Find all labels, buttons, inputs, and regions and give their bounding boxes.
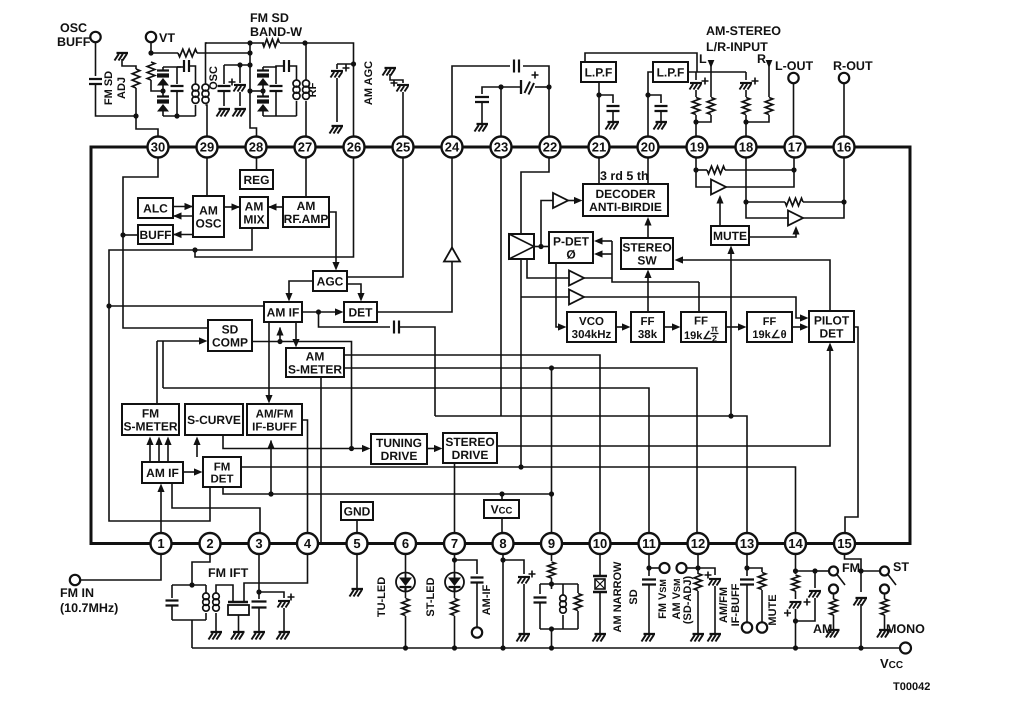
wire tank9 coil top [562, 584, 564, 595]
svg-text:8: 8 [499, 536, 506, 551]
terminal VT [146, 32, 156, 42]
capacitor rf varactor2 [257, 97, 269, 101]
svg-text:MONO: MONO [886, 622, 925, 636]
ground pin3b [279, 631, 291, 633]
wire pilot to sw [680, 260, 830, 311]
wire pin8 down [502, 554, 504, 648]
svg-text:304kHz: 304kHz [572, 329, 612, 341]
junction rail p9 [549, 645, 554, 650]
wire pin12 dn2 [697, 591, 699, 633]
arrow into ifbuff bottom [267, 440, 274, 449]
arrow into ifbuff [265, 395, 272, 404]
elco C7 [331, 65, 350, 78]
pin 25 [393, 137, 414, 158]
capacitor rf varactor1 [257, 71, 269, 75]
svg-text:AM: AM [306, 349, 325, 363]
wire p23 up [500, 87, 502, 137]
wire pin26 vert [353, 64, 355, 137]
ground pin3 [254, 631, 266, 633]
wire xbox out2 [520, 259, 522, 467]
arrow R input [766, 60, 773, 68]
svg-text:1: 1 [157, 536, 164, 551]
junction pdet in [538, 244, 543, 249]
pin 26 [344, 137, 365, 158]
wire y341 line [157, 340, 202, 342]
wire fmsm arrow 3 [167, 441, 169, 462]
arrow into ff1 [622, 323, 631, 330]
wire fb res19b [725, 169, 794, 171]
resistor R-pin13 [758, 573, 766, 590]
wire pin13 dn2 [746, 585, 748, 622]
svg-text:AM: AM [297, 199, 316, 213]
wire pin9 down [551, 554, 553, 561]
resistor R-pin9b [574, 594, 582, 611]
svg-text:AM-IF: AM-IF [481, 584, 493, 615]
svg-text:19: 19 [690, 140, 704, 155]
svg-text:29: 29 [200, 140, 214, 155]
svg-text:17: 17 [788, 140, 802, 155]
svg-text:TUNING: TUNING [376, 436, 422, 450]
wire pin3 down [258, 554, 260, 599]
svg-text:4: 4 [304, 536, 312, 551]
svg-text:RF.AMP: RF.AMP [284, 212, 329, 226]
svg-text:AGC: AGC [317, 274, 344, 288]
svg-text:13: 13 [740, 536, 754, 551]
terminal MUTE [757, 622, 767, 632]
block SD COMP [208, 320, 252, 351]
svg-text:AM: AM [813, 622, 832, 636]
ground pin10 [595, 633, 607, 635]
wire agc to amif [289, 281, 313, 297]
wire y388 line [163, 388, 649, 533]
svg-text:AM NARROW: AM NARROW [612, 561, 624, 632]
wire mute up [730, 251, 732, 417]
svg-text:BAND-W: BAND-W [250, 25, 302, 39]
svg-text:SW: SW [637, 253, 657, 267]
svg-text:AM IF: AM IF [267, 305, 300, 319]
ground pin12 [693, 633, 705, 635]
junction tank bottom [174, 113, 179, 118]
block REG [240, 170, 273, 189]
arrow into sw right [675, 256, 684, 263]
inductor IFT secondary [213, 593, 220, 611]
svg-text:OSC: OSC [60, 21, 87, 35]
wire rfamp to agc [329, 212, 336, 265]
wire a1 input [541, 201, 553, 247]
svg-text:BUFF: BUFF [57, 35, 91, 49]
arrow L input [708, 60, 715, 68]
wire pin3 capdn [258, 608, 260, 631]
svg-text:DET: DET [820, 326, 845, 340]
wire pin15 dn3 [860, 604, 862, 648]
svg-text:ALC: ALC [143, 201, 168, 215]
wire ift bottom rail [172, 619, 206, 621]
arrow into ff2 [672, 323, 681, 330]
wire det cap net2 [400, 327, 435, 416]
pin 12 [688, 533, 709, 554]
capacitor C-quad [514, 60, 519, 73]
wire amif left feed [109, 305, 264, 307]
elco C9 horizontal [521, 72, 539, 95]
svg-text:L: L [699, 52, 707, 66]
svg-text:24: 24 [445, 140, 460, 155]
switch FM contact B [829, 585, 838, 594]
svg-text:FF: FF [694, 316, 708, 328]
wire fmdet bottom b [223, 487, 552, 494]
elco C-p19 [690, 78, 709, 90]
wire elco col2 [239, 92, 241, 106]
wire lpf1 down [598, 82, 600, 137]
wire vco to ff1 [616, 326, 625, 328]
elco C8 [391, 80, 410, 92]
resistor R-p18 [742, 98, 750, 115]
block FM DET [203, 457, 241, 487]
svg-text:DECODER: DECODER [595, 187, 655, 201]
svg-text:27: 27 [298, 140, 312, 155]
wire smeter gnd [320, 377, 322, 542]
wire tank9 res top [577, 584, 579, 593]
wire sw st dn2 [884, 615, 886, 629]
wire lpf2 stub [648, 72, 653, 137]
wire ifbuff bottom [270, 441, 272, 495]
L.P.F block 2 [653, 62, 688, 82]
wire pin10 dn2 [599, 592, 601, 633]
junction pin9 y494 [549, 491, 554, 496]
svg-text:23: 23 [494, 140, 508, 155]
svg-text:S-METER: S-METER [288, 362, 342, 376]
capacitor C-amif [471, 578, 484, 583]
wire gnd to resistor [122, 59, 136, 69]
ground mid1 [219, 108, 231, 110]
ground amagc [385, 67, 397, 69]
wire pin15 dn2 [860, 576, 862, 592]
wire R in [768, 60, 770, 68]
arrow into fmsmeter 1 [146, 437, 153, 446]
wire lpf2 capdn [660, 111, 662, 121]
block VCO 304kHz [567, 312, 616, 342]
wire pin2 down [192, 554, 210, 585]
svg-text:VCC: VCC [491, 502, 513, 516]
wire series cap left [177, 66, 183, 68]
arrow into fmdet [194, 468, 203, 475]
elco C-p18 [740, 78, 759, 90]
svg-text:STEREO: STEREO [445, 435, 494, 449]
capacitor C-lpf1 [607, 106, 620, 111]
svg-text:DRIVE: DRIVE [381, 449, 418, 463]
IC package outline [91, 147, 910, 544]
wire amif to ifbuff [268, 322, 270, 399]
wire pin14 sw [815, 570, 829, 572]
wire xbox out1 [527, 259, 569, 278]
terminal OSC BUFF [90, 32, 100, 42]
resistor R-pin9 [548, 562, 556, 578]
pin 30 [148, 137, 169, 158]
junction pin12 [695, 565, 700, 570]
capacitor C-oscbuff [89, 79, 102, 84]
svg-text:IF-BUFF: IF-BUFF [730, 583, 742, 626]
svg-text:SD: SD [222, 322, 239, 336]
svg-text:21: 21 [592, 140, 606, 155]
wire pin20 to decoder [647, 158, 649, 185]
wire amagc down [402, 92, 404, 137]
pin 24 [442, 137, 463, 158]
wire lout down [793, 83, 795, 136]
terminal IF-BUFF [742, 622, 752, 632]
inductor IFT primary [203, 593, 210, 611]
svg-text:DET: DET [349, 305, 374, 319]
svg-text:19k∠θ: 19k∠θ [752, 329, 786, 341]
wire pin15 sw [861, 570, 880, 572]
wire amosc to buff [173, 234, 193, 236]
svg-text:π: π [711, 324, 718, 334]
wire pin28 to reg [256, 158, 258, 171]
wire pin14 branch [796, 571, 816, 588]
wire ift cap col2 [171, 606, 173, 620]
arrow into sw bottom [644, 270, 651, 279]
svg-text:S-METER: S-METER [124, 419, 178, 433]
wire tank9 res dn [577, 611, 579, 629]
arrow into fmsmeter 2 [155, 437, 162, 446]
ground am [828, 629, 840, 631]
arrow into amsmeter [292, 339, 299, 348]
pin 19 [687, 137, 708, 158]
capacitor C-ift [166, 601, 179, 606]
terminal L-OUT [788, 73, 798, 83]
svg-text:R-OUT: R-OUT [833, 59, 873, 73]
resistor R-L [707, 98, 715, 115]
amplifier A4 [569, 290, 584, 305]
pin 15 [834, 533, 855, 554]
pin 2 [200, 533, 221, 554]
pin 10 [590, 533, 611, 554]
amplifier A6 [788, 211, 803, 226]
resonator AM narrow SD [593, 576, 607, 592]
svg-text:12: 12 [691, 536, 705, 551]
wire amosc to ammix [224, 206, 240, 208]
wire amif2 to fmdet [183, 471, 197, 473]
wire pin27 to rfamp [305, 158, 307, 198]
block AM IF 2 [142, 462, 183, 483]
svg-text:P-DET: P-DET [553, 234, 590, 248]
LED ST [445, 573, 464, 592]
pin 1 [151, 533, 172, 554]
arrow into sdcomp [199, 337, 208, 344]
junction lpf1 [596, 92, 601, 97]
junction pin7 [452, 557, 457, 562]
wire a4 elbow [796, 313, 803, 319]
wire p23 cap [482, 87, 501, 94]
svg-text:AM AGC: AM AGC [363, 61, 375, 105]
junction amif det [316, 309, 321, 314]
wire L col [710, 68, 712, 97]
block DECODER ANTI-BIRDIE [583, 184, 668, 216]
wire amif out2 [476, 583, 478, 627]
wire pin5 down [356, 554, 358, 588]
wire amif to det [302, 311, 338, 313]
svg-text:AM/FM: AM/FM [718, 587, 730, 623]
wire lpf1 top [585, 53, 697, 72]
ground mid2 [235, 108, 247, 110]
capacitor coupling C2 [184, 60, 189, 72]
amplifier A3 [444, 248, 460, 262]
resistor R-led2 [451, 599, 459, 616]
pin 22 [540, 137, 561, 158]
junction p18 amp [743, 199, 748, 204]
wire resistor to junction [136, 88, 158, 137]
svg-text:38k: 38k [638, 329, 658, 341]
arrow into decoder bottom [644, 217, 651, 226]
inductor T2 primary [293, 80, 300, 99]
wire a5 out [726, 170, 794, 187]
svg-text:T00042: T00042 [893, 681, 930, 693]
wire pin18 down [746, 158, 788, 219]
arrow into amif bottom [276, 327, 283, 336]
pin 28 [246, 137, 267, 158]
arrow into pilot bottom [826, 343, 833, 352]
wire ifbuff to pin4 [302, 420, 308, 533]
arrow into scurve [193, 437, 200, 446]
capacitor C-pin3 [252, 602, 267, 608]
svg-text:MUTE: MUTE [767, 594, 779, 625]
wire midcap col2 [223, 91, 225, 106]
wire pin10 down [599, 554, 601, 575]
wire bias vertical [250, 43, 257, 137]
junction rail p8 [500, 645, 505, 650]
wire pin14 down [795, 554, 797, 574]
capacitor C-pin13 [740, 580, 754, 585]
arrow into pdet1 [594, 237, 603, 244]
wire varactor mid [162, 86, 164, 97]
block AM OSC [193, 196, 224, 237]
pin 20 [638, 137, 659, 158]
wire pin15 down [845, 554, 862, 576]
junction p17 amp [791, 167, 796, 172]
wire pin9 vert [551, 368, 553, 533]
wire smeter out2 [344, 368, 697, 533]
resistor R-p19 [692, 98, 700, 115]
block BUFF [138, 225, 173, 244]
svg-text:ST: ST [893, 560, 909, 574]
junction vcc y494 [499, 491, 504, 496]
wire pin26 rail [337, 63, 354, 65]
arrow into pilot 2 [800, 323, 809, 330]
wire amif out [455, 560, 478, 574]
junction bandw right [302, 40, 307, 45]
capacitor C-pin11 [642, 580, 656, 585]
resistor R-am [830, 599, 838, 615]
pin 27 [295, 137, 316, 158]
wire amosc to alc [173, 215, 193, 217]
arrow into pilot 1 [800, 314, 809, 321]
L.P.F block 1 [581, 62, 616, 82]
resistor VT bias [147, 62, 155, 80]
svg-text:16: 16 [837, 140, 851, 155]
wire pdet net to ff2 [698, 282, 700, 312]
wire lpf2 cap [648, 95, 661, 103]
wire rf series right [289, 66, 297, 80]
wire lpf1 capdn [612, 111, 614, 121]
junction pin8 [500, 557, 505, 562]
ground pin8 [519, 633, 531, 635]
ground lpf2 [656, 121, 668, 123]
wire pdet fb2 [599, 253, 612, 255]
block DET [344, 302, 377, 322]
wire led1 dn2 [405, 616, 407, 648]
junction bandw left [247, 40, 252, 45]
wire p19 col mid [695, 90, 697, 97]
svg-text:25: 25 [396, 140, 410, 155]
capacitor rf coupling C6 [284, 60, 289, 72]
svg-text:FM: FM [842, 561, 860, 575]
wire elco h left [501, 86, 521, 88]
wire OSC BUFF down [95, 42, 97, 76]
terminal AM-IF [472, 627, 482, 637]
pin 14 [785, 533, 806, 554]
wire pin23 interior [500, 158, 502, 417]
svg-text:3: 3 [255, 536, 262, 551]
pin 23 [491, 137, 512, 158]
pin 6 [395, 533, 416, 554]
wire a6 out [803, 202, 844, 218]
capacitor varactor2 plates [157, 97, 169, 101]
wire pin26 interior [195, 158, 354, 258]
wire elco h right [535, 86, 549, 88]
svg-text:5: 5 [353, 536, 360, 551]
varactor D3 [257, 77, 269, 86]
pin 7 [444, 533, 465, 554]
switch FM lever [837, 575, 845, 586]
capacitor C-det [394, 321, 399, 334]
svg-text:RF: RF [307, 82, 319, 97]
elco C-pin8 [518, 571, 536, 584]
wire fmin [80, 554, 161, 580]
svg-text:26: 26 [347, 140, 361, 155]
svg-text:L.P.F: L.P.F [657, 65, 685, 79]
wire pin21 to decoder [598, 158, 600, 185]
resistor R-pin14 [792, 575, 800, 591]
junction p16 amp [841, 199, 846, 204]
capacitor varactor1 plates [157, 71, 169, 75]
pin 8 [493, 533, 514, 554]
wire p18 col bot [745, 115, 747, 137]
wire pin4 down [244, 554, 308, 602]
wire pin7 down [454, 554, 456, 573]
svg-text:MUTE: MUTE [713, 229, 747, 243]
svg-text:(SD-ADJ): (SD-ADJ) [682, 576, 694, 625]
wire bandw line2 [280, 43, 354, 64]
junction bias mid [247, 88, 252, 93]
junction VT [148, 50, 153, 55]
junction pin3 [256, 589, 261, 594]
wire fmdet out [241, 467, 796, 533]
junction buff net [120, 232, 125, 237]
wire elco26 col [336, 64, 338, 69]
svg-text:FF: FF [640, 316, 654, 328]
svg-text:14: 14 [788, 536, 803, 551]
wire pin11 dn2 [648, 585, 650, 633]
wire gnd stub [356, 520, 358, 533]
wire p23 cap down [481, 102, 483, 123]
block AM IF [264, 302, 302, 322]
switch ST contact B [880, 585, 889, 594]
junction pin26 rail [351, 61, 356, 66]
ground elco26 [332, 125, 344, 127]
capacitor rf tank C5 [270, 86, 283, 91]
wire fb res18b [803, 201, 844, 203]
block AM RF.AMP [283, 197, 329, 227]
arrow into buff [173, 231, 182, 238]
svg-text:FM SD: FM SD [250, 11, 289, 25]
